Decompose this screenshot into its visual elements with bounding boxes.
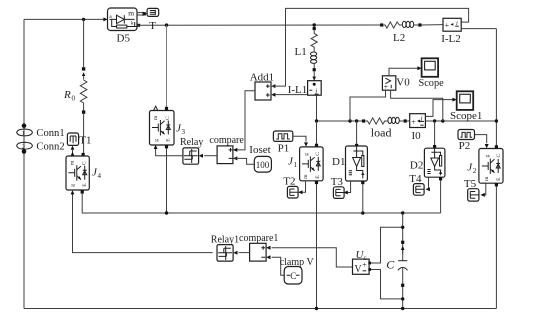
- svg-text:0: 0: [72, 95, 76, 103]
- wire J3 emitter down to mid bus: [166, 148, 168, 213]
- svg-text:Relay: Relay: [180, 137, 203, 148]
- load branch (R+L series): [362, 117, 407, 124]
- svg-text:C: C: [315, 152, 321, 156]
- svg-text:T4: T4: [409, 173, 422, 185]
- svg-text:c: c: [364, 254, 367, 262]
- svg-text:Conn2: Conn2: [36, 142, 64, 153]
- wire D5 cathode to L2 / I-L2: [137, 24, 381, 26]
- current measurement I-L2: [443, 18, 496, 31]
- wire D5 m output (double line) to goto tag: [137, 12, 147, 16]
- svg-text:C: C: [386, 258, 395, 272]
- svg-text:4: 4: [98, 172, 102, 180]
- svg-text:Scope1: Scope1: [450, 110, 482, 122]
- wire R0 to J4 collector: [83, 19, 85, 67]
- wire J1 collector from main line: [316, 121, 318, 144]
- wire Us plus to capacitor top node: [371, 227, 401, 263]
- relay block Relay1: [217, 245, 238, 262]
- svg-text:C: C: [165, 116, 171, 120]
- svg-text:Ioset: Ioset: [249, 144, 270, 156]
- wire J3 collector from T node: [166, 25, 168, 109]
- wire J4 gate from Relay1: [73, 191, 213, 252]
- svg-text:m: m: [128, 9, 134, 18]
- svg-text:1: 1: [294, 161, 298, 169]
- wire I-L2 feedback loop to Add1 top input: [273, 8, 469, 86]
- wire I0 signal to Scope1: [425, 100, 454, 117]
- wire V0 output to Scope: [389, 68, 420, 76]
- svg-text:V0: V0: [396, 77, 410, 89]
- svg-text:D2: D2: [410, 159, 423, 171]
- wire J1 emitter down to bottom bus: [316, 184, 318, 308]
- wire D2 m to T4: [427, 177, 429, 189]
- svg-text:D1: D1: [332, 156, 345, 168]
- svg-text:I-L2: I-L2: [441, 33, 461, 45]
- voltage measurement V0: [382, 76, 395, 92]
- svg-text:2: 2: [473, 167, 477, 175]
- svg-text:T5: T5: [464, 178, 477, 190]
- node T junction (to J3): [165, 23, 168, 26]
- wire P2 to J2 gate: [475, 135, 487, 144]
- wire J4 emitter to mid bus: [82, 194, 440, 213]
- wire J1 m to T2: [300, 181, 306, 192]
- svg-text:m: m: [70, 160, 76, 165]
- svg-text:k: k: [131, 20, 134, 26]
- wire D1 bottom to bus: [362, 184, 364, 213]
- IGBT J1: [300, 144, 324, 184]
- svg-text:3: 3: [182, 128, 186, 136]
- svg-text:L2: L2: [393, 32, 405, 44]
- svg-text:m: m: [484, 176, 490, 181]
- diode D2: [424, 145, 445, 180]
- svg-text:C: C: [290, 271, 296, 281]
- port Conn2: [17, 142, 33, 150]
- compare block: [204, 146, 237, 164]
- svg-text:g: g: [485, 154, 491, 157]
- pulse generator P2: [458, 130, 475, 140]
- node D1 top junction: [355, 119, 358, 122]
- relay block Relay: [183, 148, 203, 164]
- svg-text:2: 2: [22, 143, 25, 150]
- inductor branch L1 (R+L series): [311, 27, 318, 81]
- current measurement I0: [410, 114, 426, 128]
- goto tag T4: [413, 184, 424, 196]
- capacitor C branch: [398, 213, 408, 310]
- svg-text:g: g: [304, 153, 310, 156]
- wire D2 top from main line: [434, 121, 436, 145]
- wire top-left from left bus to D5 input: [24, 18, 104, 20]
- wire D1 top from main line: [356, 121, 358, 144]
- inductor branch L2 (R+L series): [380, 21, 443, 28]
- wire J4 m up to T1: [72, 150, 74, 156]
- svg-text:compare1: compare1: [239, 233, 278, 244]
- goto tag T1: [67, 133, 78, 145]
- svg-text:Add1: Add1: [250, 71, 274, 83]
- svg-text:compare: compare: [209, 135, 244, 146]
- diode D5: [103, 8, 140, 31]
- node J1 emitter on bottom bus: [315, 307, 318, 310]
- wire Us minus to capacitor bottom node: [371, 270, 401, 299]
- wire bottom bus: [24, 308, 496, 310]
- IGBT J2: [479, 145, 503, 186]
- node R0 top junction: [82, 18, 85, 21]
- svg-text:I0: I0: [412, 130, 422, 142]
- arrow into J4 gate: [71, 190, 75, 194]
- wire left vertical bus: [23, 19, 25, 308]
- sum block Add1: [255, 82, 275, 100]
- svg-text:g: g: [70, 184, 76, 187]
- node I-L1/J1 junction: [315, 119, 318, 122]
- svg-text:L1: L1: [295, 46, 307, 58]
- wire J3 gate from Relay: [156, 146, 183, 156]
- wire P1 to J1 gate: [293, 136, 306, 141]
- goto tag (terminator icon) for D5 m: [147, 8, 159, 16]
- svg-text:100: 100: [256, 160, 270, 170]
- IGBT J4: [66, 153, 89, 194]
- main node line: [317, 120, 363, 122]
- node J3 emitter on bus: [165, 211, 168, 214]
- svg-text:+: +: [411, 117, 416, 126]
- resistor R0 branch: [80, 67, 87, 114]
- port Conn1: [17, 129, 33, 137]
- compare1 block: [239, 243, 271, 261]
- svg-text:C: C: [496, 153, 502, 157]
- svg-text:V: V: [354, 264, 362, 275]
- wire right vertical (I-L2 return down to bottom bus): [495, 29, 497, 309]
- voltage measurement Us: [353, 259, 372, 275]
- wire I-L1 bottom to main node line: [316, 95, 318, 121]
- svg-text:load: load: [371, 126, 392, 140]
- node Conn1 top dot: [22, 123, 27, 128]
- wire D1 m to T3: [345, 181, 351, 193]
- goto tag T3: [333, 187, 344, 199]
- pulse generator P1: [273, 131, 292, 141]
- svg-text:m: m: [153, 115, 159, 120]
- node right bus junction: [495, 119, 498, 122]
- diode D1: [346, 144, 368, 184]
- node V0 plus junction: [348, 119, 351, 122]
- svg-text:D5: D5: [117, 33, 131, 45]
- svg-text:C: C: [82, 161, 88, 165]
- svg-text:R: R: [63, 89, 71, 101]
- svg-text:+: +: [384, 82, 389, 91]
- node L1 junction: [313, 23, 316, 26]
- svg-text:Relay1: Relay1: [211, 235, 239, 246]
- node D2 top junction: [433, 119, 436, 122]
- svg-text:+: +: [445, 21, 450, 30]
- wire I-L1 signal out to Add1 lower input: [273, 94, 308, 96]
- wire bus up to D2 bottom: [440, 179, 442, 213]
- svg-text:T3: T3: [331, 176, 344, 188]
- wire clamp V to compare1 lower input: [272, 257, 285, 275]
- scope Scope1: [457, 91, 474, 110]
- svg-text:1: 1: [22, 130, 25, 137]
- node capacitor top on bus: [401, 211, 404, 214]
- constant block clamp V: [284, 267, 302, 285]
- node D1 bottom on bus: [361, 211, 364, 214]
- svg-text:m: m: [303, 174, 309, 179]
- current measurement I-L1: [308, 81, 322, 96]
- wire V0 minus to main line: [391, 90, 443, 121]
- constant block 100 (Ioset): [235, 156, 272, 172]
- svg-text:T: T: [149, 20, 156, 32]
- goto tag T5: [468, 189, 479, 201]
- svg-text:Scope: Scope: [419, 78, 445, 89]
- goto tag T2: [287, 186, 298, 198]
- svg-text:T2: T2: [283, 176, 295, 188]
- node Conn2 bottom dot: [22, 149, 27, 154]
- svg-text:clamp V: clamp V: [280, 257, 315, 268]
- svg-text:P1: P1: [278, 142, 290, 154]
- wire V0 plus to main line: [350, 90, 386, 121]
- wire Add1 output down to compare: [235, 91, 255, 150]
- scope Scope: [422, 58, 439, 77]
- node V0 minus junction: [441, 119, 444, 122]
- svg-text:T1: T1: [79, 135, 91, 147]
- wire J2 m to T5: [482, 183, 486, 195]
- svg-text:Conn1: Conn1: [36, 128, 64, 139]
- svg-text:P2: P2: [459, 140, 471, 152]
- svg-text:g: g: [153, 139, 159, 142]
- arrow into J3 gate: [154, 145, 158, 149]
- IGBT J3: [150, 106, 175, 148]
- wire Us output to compare1 upper input: [272, 248, 353, 267]
